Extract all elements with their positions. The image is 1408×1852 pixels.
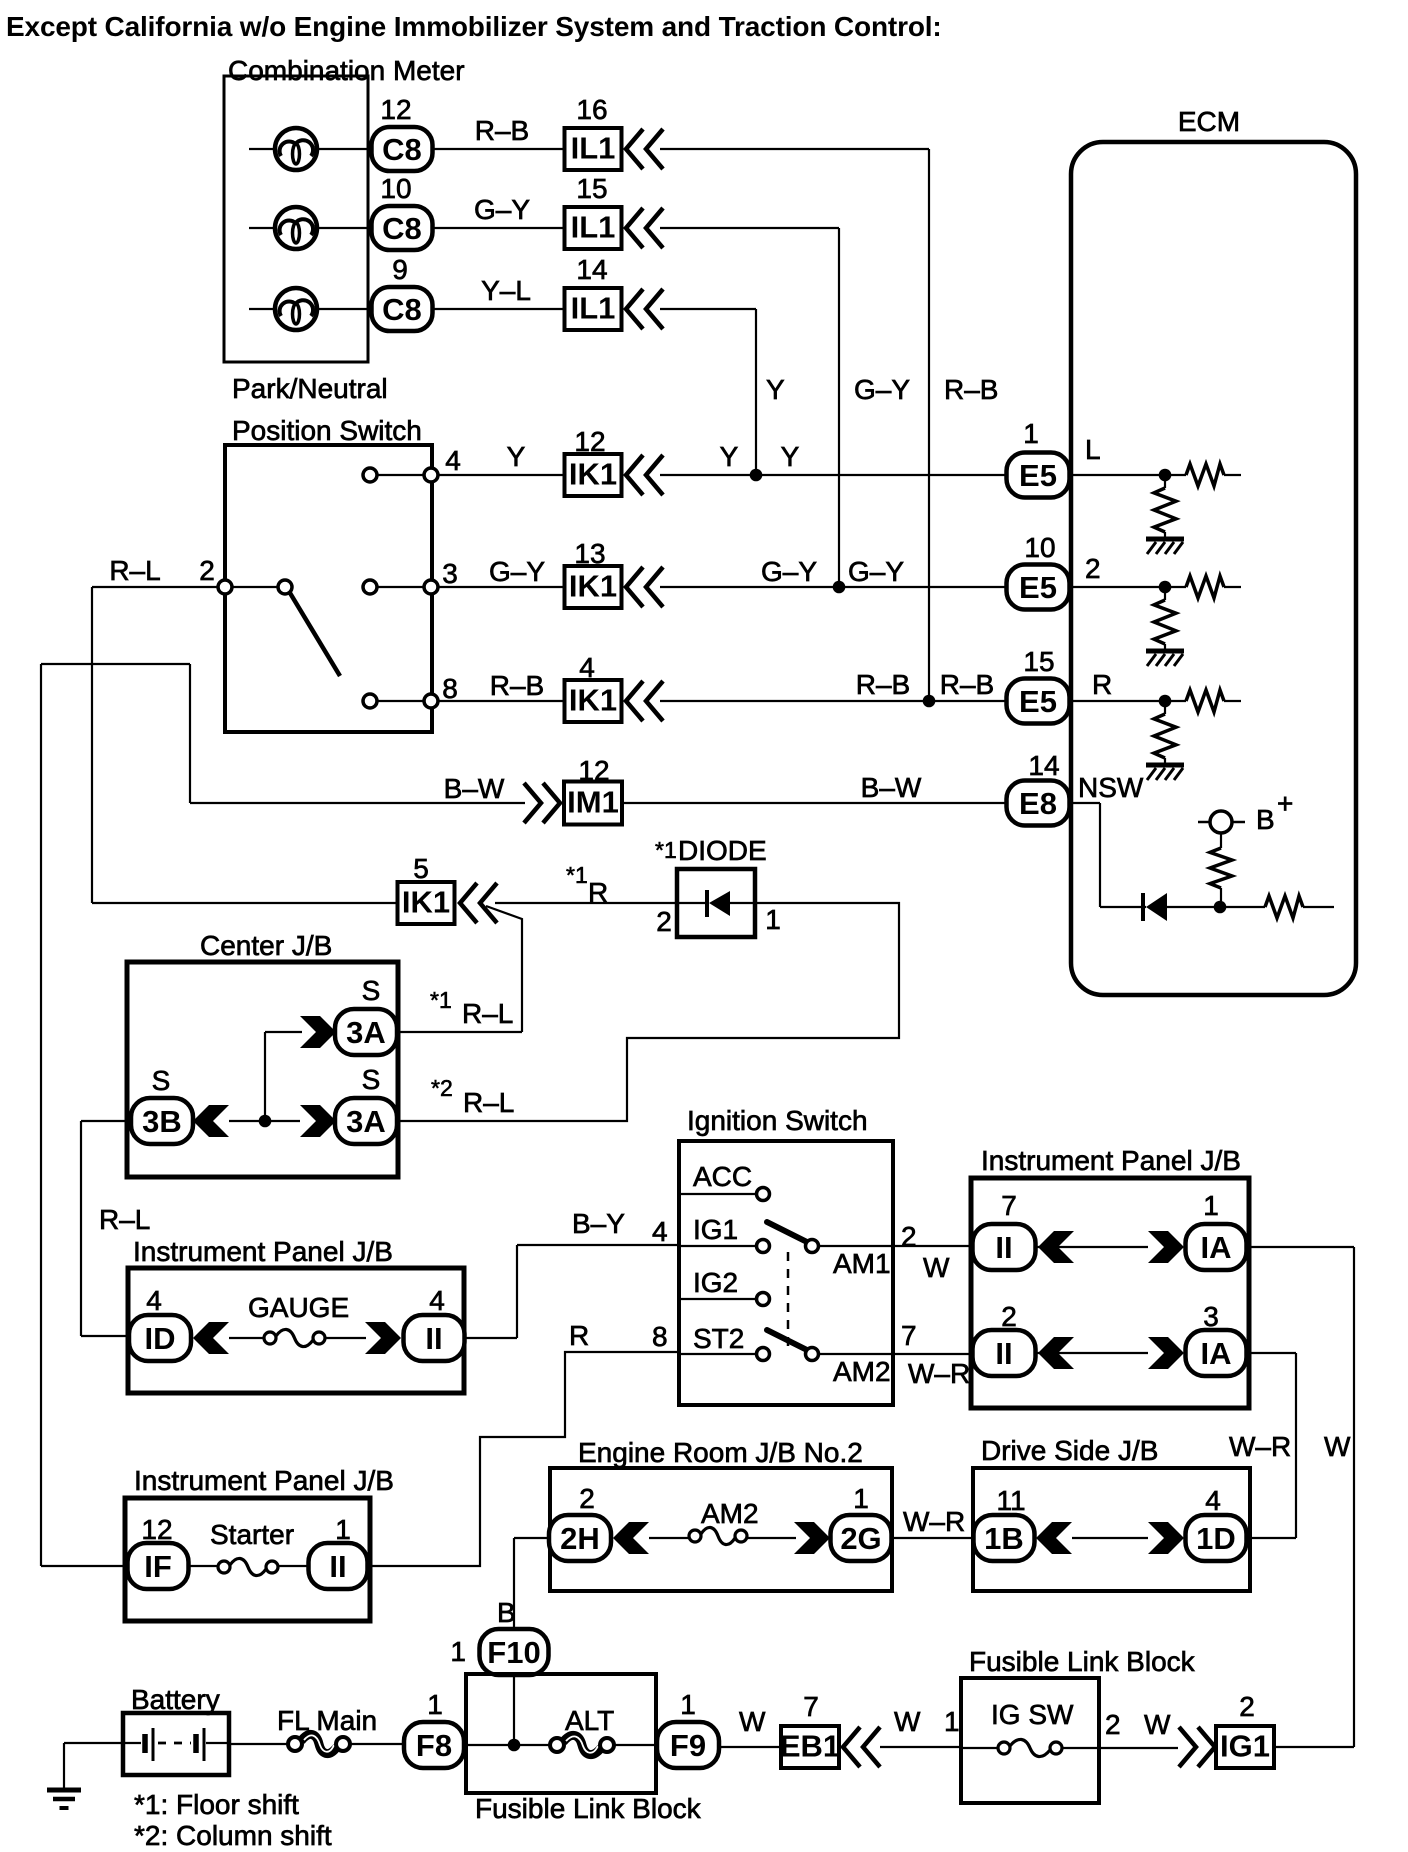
svg-text:IK1: IK1 xyxy=(569,457,617,492)
svg-text:G–Y: G–Y xyxy=(474,194,530,225)
svg-text:Fusible Link Block: Fusible Link Block xyxy=(969,1646,1196,1677)
svg-text:II: II xyxy=(995,1336,1012,1371)
svg-text:7: 7 xyxy=(1001,1190,1017,1221)
svg-text:G–Y: G–Y xyxy=(854,374,910,405)
svg-text:Position Switch: Position Switch xyxy=(232,415,422,446)
svg-text:F8: F8 xyxy=(416,1728,452,1763)
svg-text:IL1: IL1 xyxy=(571,131,616,166)
svg-text:1: 1 xyxy=(944,1706,960,1737)
svg-text:IG2: IG2 xyxy=(693,1267,738,1298)
svg-text:E5: E5 xyxy=(1019,684,1057,719)
svg-text:14: 14 xyxy=(1028,750,1059,781)
svg-text:DIODE: DIODE xyxy=(678,835,767,866)
svg-text:Y–L: Y–L xyxy=(481,275,531,306)
svg-text:II: II xyxy=(329,1549,346,1584)
svg-text:IM1: IM1 xyxy=(567,785,619,820)
svg-text:AM1: AM1 xyxy=(833,1248,891,1279)
svg-text:2: 2 xyxy=(901,1221,917,1252)
svg-text:2: 2 xyxy=(1105,1709,1121,1740)
svg-text:Ignition Switch: Ignition Switch xyxy=(687,1105,868,1136)
svg-text:10: 10 xyxy=(1024,532,1055,563)
svg-text:AM2: AM2 xyxy=(833,1356,891,1387)
svg-text:ECM: ECM xyxy=(1178,106,1240,137)
svg-text:W–R: W–R xyxy=(1229,1431,1291,1462)
svg-text:16: 16 xyxy=(576,94,607,125)
svg-text:1B: 1B xyxy=(984,1521,1024,1556)
svg-text:Instrument Panel J/B: Instrument Panel J/B xyxy=(134,1465,394,1496)
svg-text:IL1: IL1 xyxy=(571,291,616,326)
svg-text:10: 10 xyxy=(380,173,411,204)
svg-text:4: 4 xyxy=(146,1285,162,1316)
svg-text:R–B: R–B xyxy=(490,670,544,701)
svg-text:5: 5 xyxy=(413,853,429,884)
svg-text:*1: Floor shift: *1: Floor shift xyxy=(134,1789,299,1820)
svg-text:S: S xyxy=(362,1064,381,1095)
svg-text:F10: F10 xyxy=(487,1635,540,1670)
svg-text:E5: E5 xyxy=(1019,458,1057,493)
svg-text:1: 1 xyxy=(450,1636,466,1667)
svg-text:Instrument Panel J/B: Instrument Panel J/B xyxy=(133,1236,393,1267)
svg-text:Except California w/o Engine I: Except California w/o Engine Immobilizer… xyxy=(6,11,942,42)
svg-text:Fusible Link Block: Fusible Link Block xyxy=(475,1793,702,1824)
svg-text:R–L: R–L xyxy=(99,1204,150,1235)
svg-text:R–B: R–B xyxy=(940,669,994,700)
svg-text:7: 7 xyxy=(803,1691,819,1722)
svg-text:2: 2 xyxy=(579,1483,595,1514)
svg-text:15: 15 xyxy=(576,173,607,204)
svg-text:1: 1 xyxy=(427,1689,443,1720)
svg-text:4: 4 xyxy=(445,445,461,476)
svg-text:Battery: Battery xyxy=(131,1684,220,1715)
svg-text:C8: C8 xyxy=(382,211,422,246)
svg-text:R–L: R–L xyxy=(463,1087,514,1118)
svg-text:*1: *1 xyxy=(566,862,588,888)
svg-text:12: 12 xyxy=(380,94,411,125)
svg-text:1: 1 xyxy=(1203,1190,1219,1221)
svg-text:2H: 2H xyxy=(560,1521,600,1556)
svg-text:R–B: R–B xyxy=(475,115,529,146)
svg-text:3A: 3A xyxy=(346,1015,386,1050)
svg-text:ID: ID xyxy=(145,1321,176,1356)
svg-text:W: W xyxy=(1144,1709,1171,1740)
svg-text:+: + xyxy=(1277,788,1293,819)
svg-text:B–Y: B–Y xyxy=(572,1208,625,1239)
svg-text:Engine Room J/B No.2: Engine Room J/B No.2 xyxy=(578,1437,863,1468)
svg-text:7: 7 xyxy=(901,1320,917,1351)
svg-text:14: 14 xyxy=(576,254,607,285)
svg-text:W: W xyxy=(1324,1431,1351,1462)
svg-text:11: 11 xyxy=(996,1485,1025,1516)
svg-text:W–R: W–R xyxy=(908,1358,970,1389)
svg-text:S: S xyxy=(362,975,381,1006)
svg-text:IA: IA xyxy=(1201,1230,1232,1265)
svg-text:12: 12 xyxy=(141,1514,172,1545)
svg-text:L: L xyxy=(1085,434,1101,465)
svg-text:2: 2 xyxy=(656,906,672,937)
svg-text:IL1: IL1 xyxy=(571,210,616,245)
svg-text:G–Y: G–Y xyxy=(761,556,817,587)
svg-text:IK1: IK1 xyxy=(569,569,617,604)
svg-text:W: W xyxy=(923,1252,950,1283)
svg-text:NSW: NSW xyxy=(1078,772,1144,803)
svg-text:W: W xyxy=(739,1706,766,1737)
svg-text:*2: Column shift: *2: Column shift xyxy=(134,1820,332,1851)
svg-text:B–W: B–W xyxy=(444,773,505,804)
svg-text:12: 12 xyxy=(578,755,609,786)
svg-text:R: R xyxy=(1092,669,1112,700)
svg-text:8: 8 xyxy=(652,1321,668,1352)
svg-text:IF: IF xyxy=(144,1549,172,1584)
svg-text:15: 15 xyxy=(1023,646,1054,677)
svg-text:1: 1 xyxy=(765,904,781,935)
svg-text:1: 1 xyxy=(680,1689,696,1720)
svg-text:B: B xyxy=(1256,804,1275,835)
svg-text:Center J/B: Center J/B xyxy=(200,930,332,961)
svg-text:G–Y: G–Y xyxy=(848,556,904,587)
svg-text:R–L: R–L xyxy=(462,998,513,1029)
svg-text:R–B: R–B xyxy=(944,374,998,405)
svg-text:Y: Y xyxy=(507,441,526,472)
svg-text:GAUGE: GAUGE xyxy=(248,1292,349,1323)
svg-text:W: W xyxy=(894,1706,921,1737)
svg-text:II: II xyxy=(995,1230,1012,1265)
svg-text:*1: *1 xyxy=(655,837,677,863)
svg-text:IG1: IG1 xyxy=(1220,1729,1270,1764)
svg-text:1: 1 xyxy=(1023,418,1039,449)
svg-text:2: 2 xyxy=(1001,1301,1017,1332)
svg-text:1D: 1D xyxy=(1196,1521,1236,1556)
svg-text:R–B: R–B xyxy=(856,669,910,700)
svg-text:3B: 3B xyxy=(142,1104,182,1139)
svg-text:S: S xyxy=(152,1065,171,1096)
svg-text:B: B xyxy=(497,1597,516,1628)
svg-text:C8: C8 xyxy=(382,132,422,167)
svg-text:13: 13 xyxy=(574,538,605,569)
svg-text:2: 2 xyxy=(199,555,215,586)
svg-text:IA: IA xyxy=(1201,1336,1232,1371)
svg-text:ST2: ST2 xyxy=(693,1323,744,1354)
svg-text:IK1: IK1 xyxy=(402,885,450,920)
svg-text:*1: *1 xyxy=(430,987,452,1013)
svg-text:4: 4 xyxy=(1205,1485,1221,1516)
svg-text:4: 4 xyxy=(429,1285,445,1316)
svg-text:ACC: ACC xyxy=(693,1161,752,1192)
svg-text:R: R xyxy=(588,877,608,908)
svg-text:IK1: IK1 xyxy=(569,683,617,718)
svg-text:E8: E8 xyxy=(1019,786,1057,821)
svg-text:Combination Meter: Combination Meter xyxy=(228,55,465,86)
svg-text:8: 8 xyxy=(442,673,458,704)
svg-text:F9: F9 xyxy=(670,1728,706,1763)
svg-text:3A: 3A xyxy=(346,1104,386,1139)
svg-text:Y: Y xyxy=(720,441,739,472)
svg-text:II: II xyxy=(425,1321,442,1356)
svg-text:Instrument Panel J/B: Instrument Panel J/B xyxy=(981,1145,1241,1176)
svg-text:C8: C8 xyxy=(382,292,422,327)
svg-text:R: R xyxy=(569,1320,589,1351)
svg-text:2: 2 xyxy=(1085,553,1101,584)
svg-text:Park/Neutral: Park/Neutral xyxy=(232,373,388,404)
svg-text:Drive Side J/B: Drive Side J/B xyxy=(981,1435,1158,1466)
svg-text:W–R: W–R xyxy=(903,1506,965,1537)
svg-text:2: 2 xyxy=(1239,1691,1255,1722)
svg-text:R–L: R–L xyxy=(109,555,160,586)
svg-text:Y: Y xyxy=(766,374,785,405)
svg-text:IG1: IG1 xyxy=(693,1214,738,1245)
svg-text:Starter: Starter xyxy=(210,1519,294,1550)
svg-text:12: 12 xyxy=(574,426,605,457)
svg-text:2G: 2G xyxy=(840,1521,881,1556)
svg-text:EB1: EB1 xyxy=(780,1729,840,1764)
svg-text:FL Main: FL Main xyxy=(277,1705,377,1736)
svg-text:3: 3 xyxy=(1203,1301,1219,1332)
svg-text:E5: E5 xyxy=(1019,570,1057,605)
svg-text:1: 1 xyxy=(335,1514,351,1545)
svg-text:1: 1 xyxy=(853,1483,869,1514)
svg-text:ALT: ALT xyxy=(565,1705,614,1736)
svg-text:4: 4 xyxy=(579,652,595,683)
svg-text:4: 4 xyxy=(652,1216,668,1247)
svg-text:G–Y: G–Y xyxy=(489,556,545,587)
svg-text:AM2: AM2 xyxy=(701,1498,759,1529)
svg-text:B–W: B–W xyxy=(861,772,922,803)
svg-text:3: 3 xyxy=(442,558,458,589)
svg-text:IG SW: IG SW xyxy=(991,1699,1074,1730)
svg-text:Y: Y xyxy=(781,441,800,472)
svg-text:9: 9 xyxy=(392,254,408,285)
svg-text:*2: *2 xyxy=(431,1075,453,1101)
